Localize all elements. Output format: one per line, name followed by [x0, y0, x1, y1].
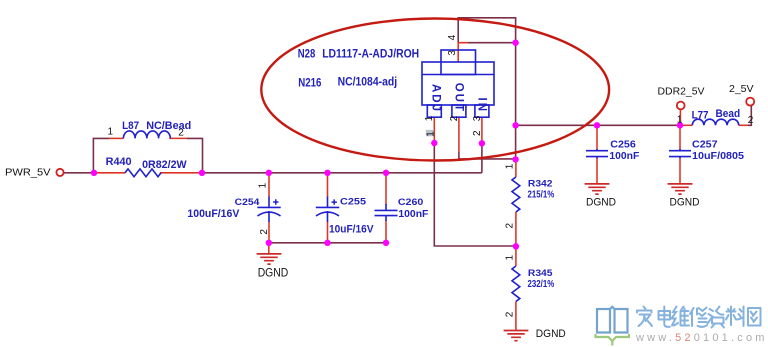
svg-text:2: 2 — [748, 115, 754, 126]
svg-text:N216: N216 — [298, 76, 322, 90]
svg-text:1: 1 — [258, 182, 269, 188]
svg-text:C260: C260 — [398, 196, 423, 207]
svg-text:LD1117-A-ADJ/ROH: LD1117-A-ADJ/ROH — [322, 48, 419, 60]
svg-text:232/1%: 232/1% — [528, 279, 555, 290]
svg-text:1: 1 — [425, 131, 436, 137]
svg-text:2: 2 — [505, 223, 516, 229]
svg-text:C257: C257 — [692, 140, 718, 151]
svg-text:2: 2 — [449, 115, 460, 121]
svg-text:3: 3 — [472, 115, 483, 121]
svg-text:10uF/16V: 10uF/16V — [329, 224, 374, 236]
svg-text:OUT: OUT — [453, 83, 465, 113]
svg-text:1: 1 — [108, 126, 114, 137]
svg-text:C254: C254 — [235, 197, 261, 207]
svg-text:4: 4 — [447, 34, 458, 40]
svg-text:ADJ: ADJ — [430, 84, 442, 113]
svg-text:NC/Bead: NC/Bead — [146, 120, 191, 132]
svg-text:www.520101.com: www.520101.com — [635, 332, 768, 344]
svg-text:IN: IN — [476, 98, 488, 114]
svg-text:215/1%: 215/1% — [528, 190, 555, 201]
svg-text:C255: C255 — [340, 196, 367, 207]
svg-text:10uF/0805: 10uF/0805 — [692, 151, 744, 162]
svg-text:1: 1 — [505, 255, 516, 261]
svg-text:2: 2 — [505, 311, 516, 317]
svg-text:L77: L77 — [692, 110, 709, 122]
svg-text:R440: R440 — [106, 156, 132, 168]
svg-text:N28: N28 — [298, 48, 316, 60]
svg-text:3: 3 — [447, 50, 458, 56]
svg-text:0R82/2W: 0R82/2W — [142, 159, 187, 171]
svg-text:PWR_5V: PWR_5V — [5, 166, 51, 178]
svg-text:R345: R345 — [528, 268, 553, 278]
svg-text:DGND: DGND — [670, 197, 700, 209]
svg-text:NC/1084-adj: NC/1084-adj — [338, 75, 398, 89]
svg-text:1: 1 — [677, 115, 683, 126]
svg-text:100nF: 100nF — [609, 151, 639, 162]
svg-text:100uF/16V: 100uF/16V — [187, 208, 239, 220]
svg-text:1: 1 — [424, 115, 435, 121]
svg-text:1: 1 — [505, 163, 516, 169]
svg-text:2: 2 — [472, 130, 483, 136]
svg-text:100nF: 100nF — [398, 208, 429, 220]
svg-text:Bead: Bead — [716, 108, 741, 120]
svg-text:2: 2 — [259, 229, 270, 235]
svg-text:DGND: DGND — [586, 197, 616, 209]
svg-text:2_5V: 2_5V — [729, 83, 754, 95]
svg-text:DGND: DGND — [258, 267, 289, 279]
svg-text:R342: R342 — [528, 178, 553, 188]
svg-text:DGND: DGND — [536, 328, 566, 340]
svg-text:L87: L87 — [122, 120, 139, 132]
svg-text:C256: C256 — [610, 140, 636, 151]
svg-text:DDR2_5V: DDR2_5V — [658, 86, 705, 98]
